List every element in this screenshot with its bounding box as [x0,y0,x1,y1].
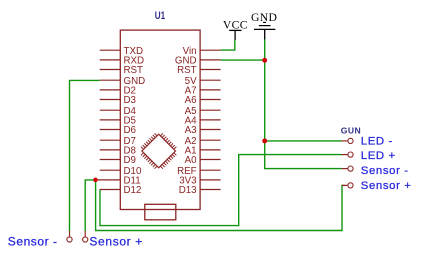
svg-text:A0: A0 [185,155,198,166]
svg-text:RST: RST [124,65,144,76]
svg-text:GUN: GUN [341,125,361,135]
svg-text:D6: D6 [124,125,136,136]
svg-text:Sensor +: Sensor + [89,234,143,248]
svg-text:Sensor -: Sensor - [361,165,409,177]
svg-text:D13: D13 [179,185,197,196]
svg-text:VCC: VCC [223,18,248,31]
svg-text:Sensor +: Sensor + [361,180,412,192]
svg-text:A6: A6 [185,95,197,106]
svg-text:U1: U1 [155,10,165,22]
svg-text:GND: GND [251,11,277,24]
svg-text:RST: RST [177,65,197,76]
svg-text:A3: A3 [185,125,197,136]
svg-text:D9: D9 [124,155,136,166]
svg-text:D12: D12 [124,185,142,196]
svg-text:LED +: LED + [361,150,396,162]
svg-text:LED -: LED - [361,135,393,147]
svg-text:D3: D3 [124,95,136,106]
svg-text:Sensor -: Sensor - [8,234,58,248]
